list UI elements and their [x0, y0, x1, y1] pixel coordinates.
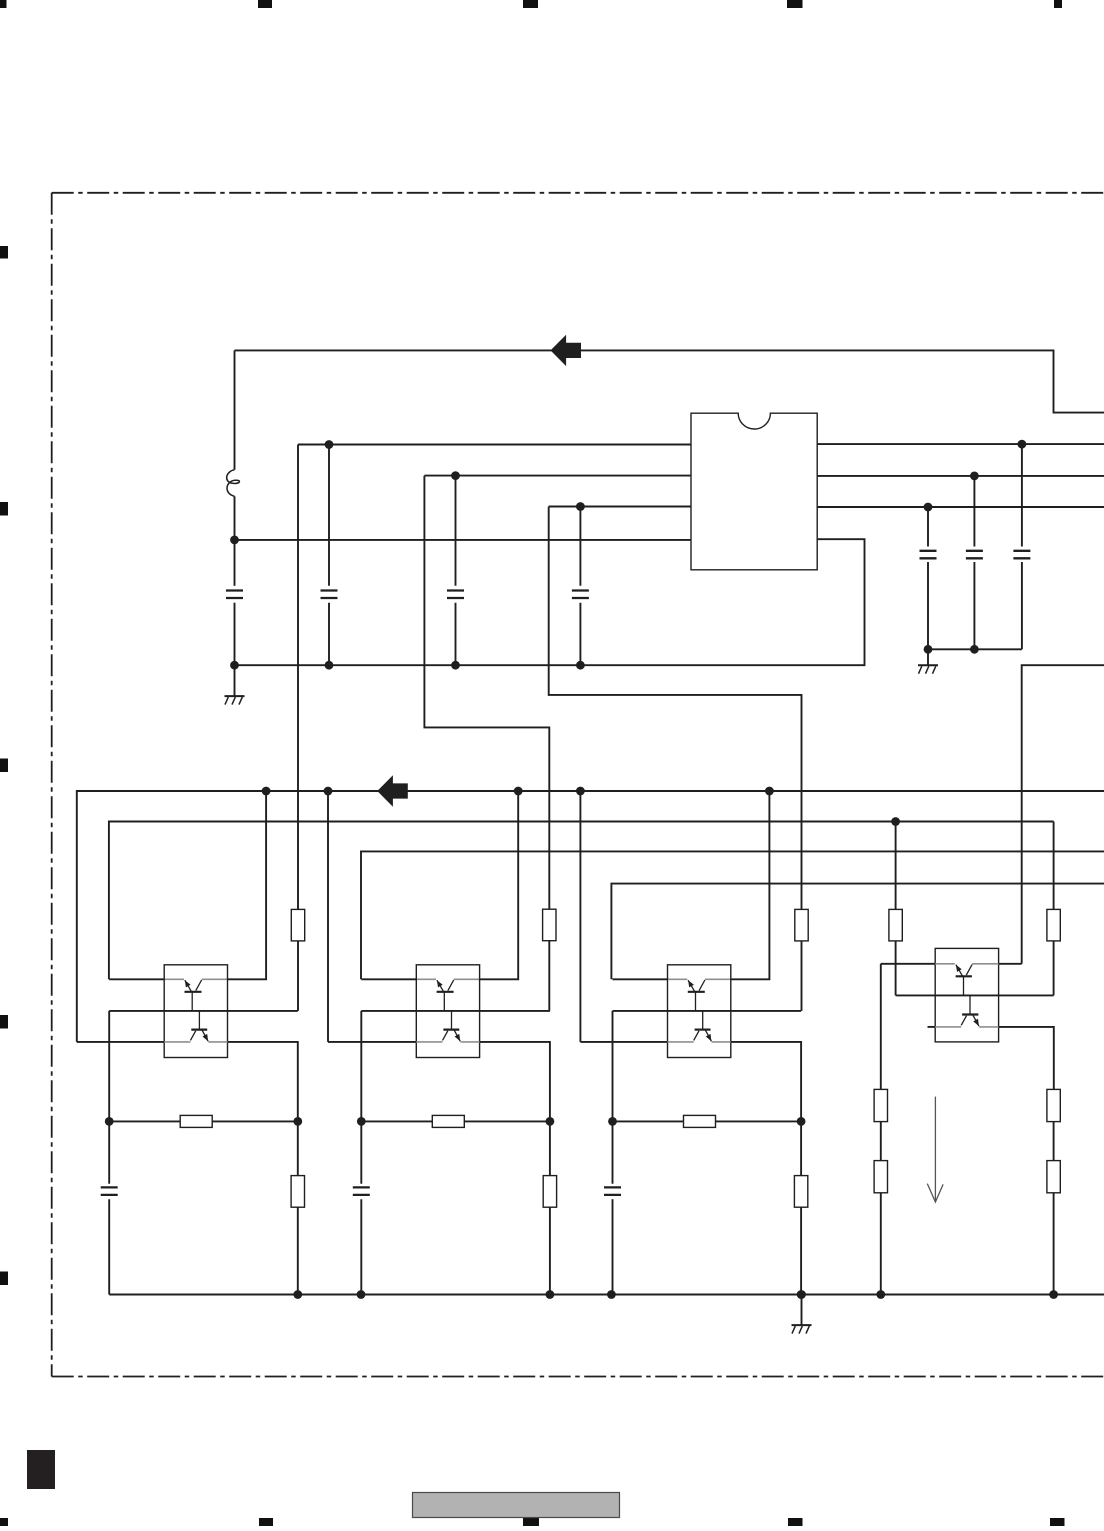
wire: R4a to ch4 base line [895, 941, 897, 996]
wire: ch2 upper emitter lead [361, 978, 416, 980]
wire: ch3 RC row [613, 1120, 802, 1122]
wire: IC right pin 2 [817, 475, 1104, 477]
transistor pair Q3 (package outline) [668, 965, 731, 1058]
transistor Q1b (lower) [190, 1030, 208, 1042]
resistor R3e (ch3 emitter) [684, 1115, 716, 1127]
junction ch4 left on rail [876, 1290, 885, 1299]
transistor Q3b (lower) [694, 1030, 712, 1042]
wire: IC right pin 3 [817, 506, 1104, 508]
wire: IC left pin 1 [298, 444, 691, 446]
wire: to chassis ground [234, 665, 236, 696]
wire: ch2 base line [361, 1010, 550, 1012]
footer label box [413, 1493, 620, 1518]
wire: ch1 emitter stub inside package [164, 978, 184, 980]
wire: ch1 lower collector stub inside package [208, 1041, 227, 1043]
capacitor C5 leads [927, 507, 929, 649]
wire: feed line F1 (ch1 emitter / ch4 bias) [109, 822, 1054, 980]
wire: ch3 base line down to cap [612, 1011, 614, 1184]
resistor R4a (ch4 base bias) [889, 909, 902, 941]
ground (chassis) under C1 [225, 696, 245, 705]
transistor Q1a (upper) [185, 980, 202, 1011]
junction ch1 RC row right [293, 1117, 302, 1126]
wire: ch4 lower collector stub inside package [979, 1026, 999, 1028]
resistor R3 (ch3 base feed) [795, 909, 808, 941]
resistor R3c (ch3 collector load) [794, 1176, 807, 1208]
capacitor C4 [572, 591, 589, 599]
page thumb-index marker [27, 1450, 55, 1489]
wire: ch1 collector stub inside package [202, 978, 228, 980]
junction C3 top [451, 471, 460, 480]
wire: ch1 lower emitter stub inside package [164, 1041, 190, 1043]
resistor R4c [1047, 1089, 1060, 1121]
wire: ch2 lower emitter lead to bus drop [328, 1041, 416, 1043]
wire: ch2 lower base lead [451, 1011, 453, 1030]
junction C5 bottom [924, 645, 933, 654]
resistor R2 (ch2 base feed) [543, 909, 556, 941]
signal-direction arrow (left) on bus B1 [377, 775, 408, 806]
wire: ch1 upper emitter lead [109, 978, 164, 980]
wire: IC pin1 line down to R1 [297, 445, 299, 910]
wire: ch3 emitter stub inside package [668, 978, 688, 980]
junction rail ground tap [797, 1290, 806, 1299]
wire: ch3 load resistor to rail [800, 1207, 802, 1294]
wire: ch1 base line down to cap [108, 1011, 110, 1184]
wire: top feed from IC area to left rail [235, 350, 1104, 412]
wire: ch4 lower emitter stub inside package [935, 1026, 961, 1028]
capacitor C3 [447, 591, 464, 599]
wire: IC right pin 1 [817, 443, 1104, 445]
wire: ch3 lower collector to R [731, 1042, 801, 1176]
wire: right edge net to ch4 collector [1022, 665, 1104, 964]
wire: IC pin2 line jog down to R2 [424, 476, 549, 910]
wire: down to inductor L1 [234, 350, 236, 469]
capacitor C3 leads [455, 476, 457, 666]
wire: ch1 cap to rail [108, 1199, 110, 1294]
resistor R1c (ch1 collector load) [291, 1176, 304, 1208]
wire: ch1 load resistor to rail [297, 1207, 299, 1294]
ground (chassis) under rail [792, 1325, 812, 1334]
wire: node A to IC pin (left pin 4) [235, 539, 692, 541]
capacitor C7 [1013, 551, 1030, 559]
junction C2 bottom on ground bus [325, 661, 334, 670]
wire: R4b to ch4 base line [1053, 941, 1055, 996]
junction ch2 RC row left [357, 1117, 366, 1126]
junction ch2 RC row right [546, 1117, 555, 1126]
wire: feed line F2 (ch2 emitter) [361, 851, 1104, 979]
capacitor C2 [321, 591, 338, 599]
capacitor C7 leads [1021, 444, 1023, 649]
wire: cap return bus C5-C7 [928, 648, 1022, 650]
junction ch3 lower-emitter drop on bus B1 [576, 787, 585, 796]
node A junction [230, 536, 239, 545]
junction ch4 right on rail [1049, 1290, 1058, 1299]
wire: IC left pin 2 [424, 475, 691, 477]
transistor Q3a (upper) [688, 980, 705, 1011]
capacitor C1 [226, 591, 243, 599]
wire: rail to chassis ground [801, 1295, 803, 1326]
wire: ch2 collector up to bus B1 [480, 791, 519, 979]
wire: ch4 emitter down to R4e [880, 964, 882, 1090]
junction ch3 collector on bus B1 [765, 787, 774, 796]
wire: ch2 RC row [361, 1120, 550, 1122]
wire: ch2 lower collector stub inside package [460, 1041, 479, 1043]
current-direction arrow (down) in ch4 [927, 1097, 943, 1202]
capacitor C6 leads [973, 476, 975, 649]
wire: ch4 lower collector to R4c [999, 1027, 1054, 1090]
junction ch2 cap on rail [357, 1290, 366, 1299]
junction C6 bottom [970, 645, 979, 654]
wire: ch4 collector stub inside package [972, 963, 999, 965]
wire: ch1 lower base lead [198, 1011, 200, 1030]
resistor R2c (ch2 collector load) [543, 1176, 556, 1208]
junction ch3 cap on rail [607, 1290, 616, 1299]
capacitor C3e (ch3) [604, 1187, 621, 1195]
wire: R4e to R4f [880, 1122, 882, 1161]
resistor R1e (ch1 emitter) [180, 1115, 212, 1127]
wire: IC left pin 3 [549, 506, 691, 508]
wire: ch2 load resistor to rail [549, 1207, 551, 1294]
wire: ch4 lower base lead [969, 995, 971, 1014]
ground (chassis) under C5 [918, 665, 938, 674]
wire: main bus B1 with left drop to ch1 [77, 791, 1104, 1042]
wire: ch4 upper emitter lead [881, 963, 935, 965]
junction C4 top [576, 502, 585, 511]
wire: bottom rail [109, 1294, 1104, 1296]
wire: C1 to ground bus [234, 603, 236, 666]
wire: R3 to ch3 base line [801, 941, 803, 1011]
junction C5 top [924, 503, 933, 512]
transistor Q4a (upper) [956, 965, 973, 996]
wire: R1 to ch1 base line [297, 941, 299, 1011]
wire: ch3 collector stub inside package [705, 978, 731, 980]
transistor pair Q1 (package outline) [164, 965, 227, 1058]
resistor R4e [874, 1089, 887, 1121]
wire: F1 tap down to R4a [895, 822, 897, 910]
junction ch3 load on rail [797, 1290, 806, 1299]
op-amp / IC U1 (DIP package with notch) [691, 413, 817, 570]
wire: C5 to chassis ground [927, 649, 929, 665]
wire: ch2 lower emitter stub inside package [416, 1041, 442, 1043]
wire: ground bus to IC right pin 4 [235, 539, 865, 665]
junction ch3 RC row left [608, 1117, 617, 1126]
signal-direction arrow (left) on top feed wire [551, 335, 582, 366]
junction ch4 bias tap on feed F1 [891, 817, 900, 826]
resistor R4b (ch4 base bias) [1047, 909, 1060, 941]
wire: ch4 collector out [999, 963, 1022, 965]
resistor R4f [874, 1161, 887, 1193]
capacitor C5 [920, 551, 937, 559]
wire: ch3 lower collector stub inside package [712, 1041, 731, 1043]
wire: ch3 lower emitter lead to bus drop [580, 1041, 667, 1043]
transistor Q4b (lower) [961, 1015, 979, 1027]
wire: R4d to rail [1053, 1193, 1055, 1295]
resistor R1 (ch1 base feed) [291, 909, 304, 941]
wire: ch2 bus drop [327, 791, 329, 1042]
junction C3 bottom on ground bus [451, 661, 460, 670]
wire: ch1 lower collector to R [228, 1042, 298, 1176]
wire: ch1 RC row [109, 1120, 298, 1122]
wire: ch4 base line [896, 994, 1054, 996]
wire: feed line F3 (ch3 emitter) [611, 884, 1104, 980]
wire: ch3 upper emitter lead [613, 978, 668, 980]
resistor R4d [1047, 1161, 1060, 1193]
junction ch1 collector on bus B1 [262, 787, 271, 796]
wire: ch4 lower emitter stub (open) [928, 1026, 936, 1028]
junction C2 top [325, 440, 334, 449]
junction: ground bus left end [230, 661, 239, 670]
junction C7 top [1018, 440, 1027, 449]
junction ch1 RC row left [105, 1117, 114, 1126]
transistor pair Q4 (package outline) [935, 948, 998, 1042]
wire: ch2 cap to rail [360, 1199, 362, 1294]
wire: ch1 collector up to bus B1 [228, 791, 267, 979]
transistor pair Q2 (package outline) [416, 965, 479, 1058]
inductor L1 [227, 470, 240, 497]
wire: R4f to rail [880, 1193, 882, 1295]
junction C4 bottom on ground bus [576, 661, 585, 670]
wire: IC pin3 line jog down to R3 [549, 507, 802, 910]
wire: ch3 base line [613, 1010, 802, 1012]
capacitor C1e (ch1) [101, 1187, 118, 1195]
wire: ch1 lower emitter lead to bus drop [77, 1041, 164, 1043]
wire: ch4 emitter stub inside package [935, 963, 955, 965]
junction ch2 collector on bus B1 [514, 787, 523, 796]
wire: F1 right end down to R4b [1053, 822, 1055, 910]
wire: ch2 base line down to cap [360, 1011, 362, 1184]
wire: ch2 emitter stub inside package [416, 978, 436, 980]
resistor R2e (ch2 emitter) [432, 1115, 464, 1127]
capacitor C2e (ch2) [353, 1187, 370, 1195]
wire: ch3 lower base lead [702, 1011, 704, 1030]
junction ch2 lower-emitter drop on bus B1 [324, 787, 333, 796]
wire: ch1 base line [109, 1010, 298, 1012]
transistor Q2b (lower) [443, 1030, 461, 1042]
junction ch3 RC row right [797, 1117, 806, 1126]
wire: R4c to R4d [1053, 1122, 1055, 1161]
wire: ch3 lower emitter stub inside package [668, 1041, 694, 1043]
capacitor C6 [966, 551, 983, 559]
wire: ch3 cap to rail [612, 1199, 614, 1294]
junction ch1 load on rail [293, 1290, 302, 1299]
junction ch2 load on rail [546, 1290, 555, 1299]
wire: ch2 lower collector to R [480, 1042, 550, 1176]
wire: inductor to node A [234, 496, 236, 586]
capacitor C4 leads [579, 507, 581, 666]
transistor Q2a (upper) [437, 980, 454, 1011]
capacitor C2 leads [328, 445, 330, 666]
wire: ch2 collector stub inside package [454, 978, 480, 980]
wire: ch3 collector up to bus B1 [731, 791, 770, 979]
junction C6 top [970, 472, 979, 481]
wire: R2 to ch2 base line [548, 941, 550, 1011]
wire: ch3 bus drop [579, 791, 581, 1042]
